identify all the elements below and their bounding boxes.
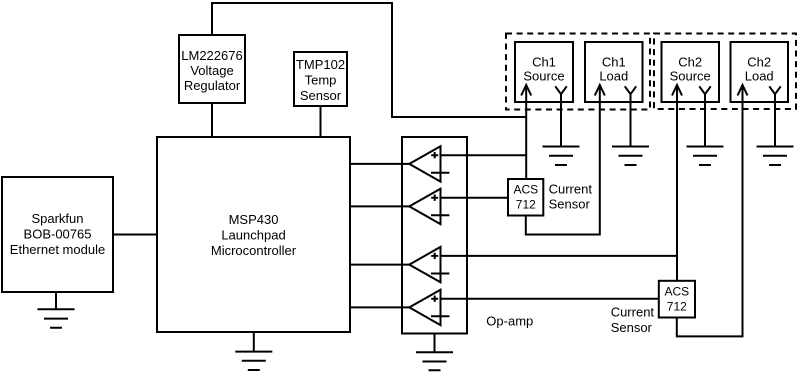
op-amp D triangle bbox=[409, 290, 440, 325]
wire LM regulator to MSP430 bbox=[211, 103, 213, 137]
current sensor ACS712 #1 box bbox=[508, 179, 543, 216]
svg-text:MSP430: MSP430 bbox=[229, 212, 279, 227]
ground below Ch2 Source antenna bbox=[687, 147, 724, 166]
current sensor ACS712 #2 box bbox=[659, 281, 695, 318]
wire MSP430 to op-amp 4 input bbox=[350, 306, 409, 308]
svg-text:Ethernet module: Ethernet module bbox=[10, 242, 105, 257]
wire MSP430 to op-amp 3 input bbox=[350, 264, 409, 266]
label Ch1 Load bbox=[599, 54, 628, 83]
svg-text:TMP102: TMP102 bbox=[296, 57, 345, 72]
op-amp A plus input bbox=[431, 152, 438, 158]
wire op-amp 3 output to Ch2 Source net bbox=[441, 255, 677, 257]
svg-text:Load: Load bbox=[745, 68, 774, 83]
Ch1 Load box bbox=[585, 42, 643, 102]
wire TMP102 to MSP430 bbox=[320, 106, 322, 137]
voltage regulator box bbox=[179, 35, 245, 103]
svg-text:Temp: Temp bbox=[305, 73, 337, 88]
ground below Ch1 Load antenna bbox=[612, 147, 649, 166]
svg-text:Current: Current bbox=[549, 181, 593, 196]
label TMP102 sensor bbox=[296, 57, 345, 103]
svg-text:Sparkfun: Sparkfun bbox=[31, 211, 83, 226]
svg-text:Ch2: Ch2 bbox=[678, 54, 702, 69]
label Ch1 Source bbox=[523, 54, 564, 83]
svg-text:ACS: ACS bbox=[513, 182, 538, 196]
label Ch2 Load bbox=[745, 54, 774, 83]
Ch1 Source antenna Y bbox=[555, 86, 566, 147]
op-amp C minus input bbox=[431, 273, 449, 275]
op-amp bank box bbox=[402, 137, 467, 334]
svg-text:Microcontroller: Microcontroller bbox=[211, 243, 297, 258]
op-amp D minus input bbox=[431, 315, 449, 317]
svg-text:Ch1: Ch1 bbox=[532, 54, 556, 69]
svg-text:BOB-00765: BOB-00765 bbox=[24, 227, 92, 242]
svg-text:Voltage: Voltage bbox=[190, 63, 233, 78]
label ACS712 #1 bbox=[513, 182, 538, 211]
op-amp D plus input bbox=[431, 296, 438, 302]
Ch1 Load antenna arrow bbox=[595, 85, 605, 96]
label MSP430 bbox=[211, 212, 297, 258]
Ch2 Source antenna Y bbox=[699, 86, 710, 147]
wire Ch1 Source arrow down to ACS712 #1 top bbox=[525, 86, 527, 180]
Ch2 Load antenna Y bbox=[769, 86, 780, 147]
microcontroller U1 box bbox=[157, 137, 350, 332]
label LM222676 regulator bbox=[181, 48, 242, 93]
label Ch2 Source bbox=[670, 54, 711, 83]
label ACS712 #2 bbox=[664, 284, 689, 313]
op-amp A triangle bbox=[409, 146, 440, 181]
channel 1 dashed enclosure bbox=[506, 34, 650, 110]
ground below MSP430 bbox=[235, 332, 272, 370]
Ch1 Load antenna Y bbox=[625, 86, 636, 147]
svg-text:712: 712 bbox=[667, 300, 687, 314]
ground below Sparkfun bbox=[38, 292, 75, 328]
svg-text:712: 712 bbox=[516, 198, 536, 212]
temp sensor box bbox=[294, 52, 347, 106]
wire Sparkfun to MSP430 bbox=[113, 234, 157, 236]
op-amp B triangle bbox=[409, 189, 440, 224]
op-amp B plus input bbox=[431, 195, 438, 201]
op-amp B minus input bbox=[431, 214, 449, 216]
wire ACS712 #1 bottom to Ch1 Load arrow bbox=[526, 86, 600, 235]
Ch2 Load antenna arrow bbox=[738, 85, 748, 96]
Ch1 Source box bbox=[515, 42, 573, 102]
svg-text:Regulator: Regulator bbox=[184, 78, 241, 93]
Ch1 Source antenna arrow bbox=[521, 85, 531, 96]
svg-text:Load: Load bbox=[599, 68, 628, 83]
svg-text:LM222676: LM222676 bbox=[181, 48, 242, 63]
Ch2 Load box bbox=[731, 42, 789, 102]
op-amp C plus input bbox=[431, 253, 438, 259]
wire ACS712 #2 bottom to Ch2 Load arrow bbox=[677, 86, 743, 337]
svg-text:Sensor: Sensor bbox=[549, 196, 591, 211]
wire op-amp 4 output to ACS712 #2 bbox=[441, 298, 660, 300]
ground below Ch2 Load antenna bbox=[757, 147, 794, 166]
svg-text:Op-amp: Op-amp bbox=[486, 314, 533, 329]
svg-text:Launchpad: Launchpad bbox=[221, 228, 285, 243]
wire top: regulator input from supply rail bbox=[212, 3, 526, 117]
svg-text:Current: Current bbox=[611, 305, 655, 320]
wire MSP430 to op-amp 2 input bbox=[350, 205, 409, 207]
svg-text:Source: Source bbox=[670, 68, 711, 83]
label Current Sensor near ACS712 #1 bbox=[549, 181, 593, 211]
wire Ch2 Source arrow down to ACS712 #2 top bbox=[676, 86, 678, 282]
ethernet module box bbox=[2, 177, 113, 292]
svg-text:Sensor: Sensor bbox=[300, 88, 342, 103]
svg-text:Ch1: Ch1 bbox=[602, 54, 626, 69]
op-amp C triangle bbox=[409, 247, 440, 282]
ground below op-amp bank bbox=[416, 334, 453, 371]
wire MSP430 to op-amp 1 input bbox=[350, 163, 409, 165]
Ch2 Source antenna arrow bbox=[672, 85, 682, 96]
label Current Sensor near ACS712 #2 bbox=[611, 305, 655, 335]
svg-text:Ch2: Ch2 bbox=[747, 54, 771, 69]
wire op-amp 2 output to ACS712 #1 bbox=[441, 197, 509, 199]
wire op-amp 1 output to Ch1 Source net bbox=[441, 154, 526, 156]
Ch2 Source box bbox=[662, 42, 720, 102]
svg-text:Source: Source bbox=[523, 68, 564, 83]
label Sparkfun ethernet module bbox=[10, 211, 105, 257]
op-amp A minus input bbox=[431, 172, 449, 174]
ground below Ch1 Source antenna bbox=[543, 147, 580, 166]
channel 2 dashed enclosure bbox=[654, 34, 796, 110]
svg-text:ACS: ACS bbox=[664, 284, 689, 298]
svg-text:Sensor: Sensor bbox=[611, 320, 653, 335]
